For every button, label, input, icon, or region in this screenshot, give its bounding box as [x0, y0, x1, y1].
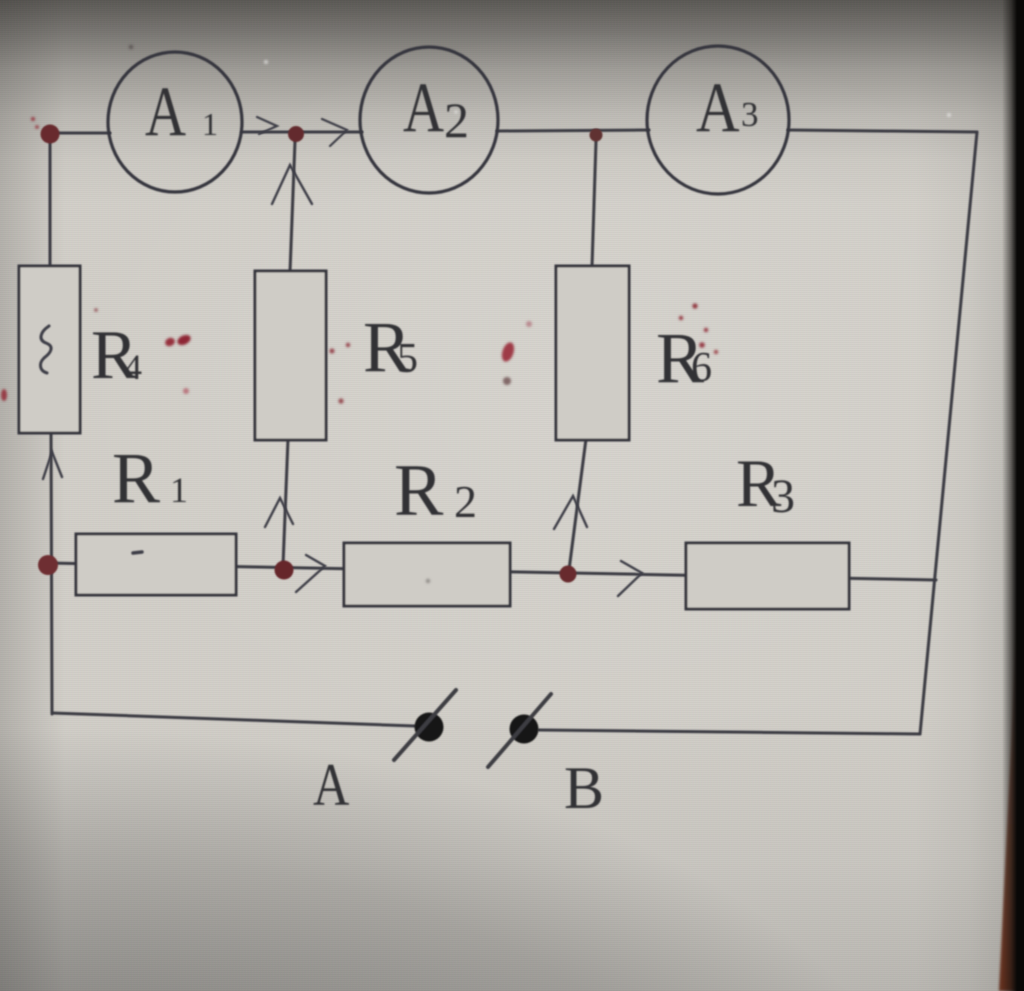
wire left side upper — [49, 140, 52, 267]
resistor R1 — [76, 534, 236, 595]
resistor R5 — [255, 271, 326, 440]
junction node R1-R2 — [275, 561, 294, 580]
red speckle left edge — [1, 389, 7, 401]
junction node left middle — [38, 555, 58, 575]
wire R6 bottom branch — [569, 439, 586, 570]
wire middle row — [48, 563, 936, 580]
resistor R2 — [344, 543, 510, 606]
wire bottom right B to corner — [539, 730, 920, 734]
svg-text:2: 2 — [454, 476, 477, 527]
svg-text:3: 3 — [741, 95, 759, 134]
red speckle cluster above R6 label — [679, 316, 683, 320]
mark inside R1 — [133, 552, 142, 553]
junction node R2-R3 — [560, 566, 577, 583]
svg-text:1: 1 — [202, 106, 218, 142]
wire bottom left corner to A — [52, 713, 415, 726]
svg-text:6: 6 — [691, 345, 712, 391]
terminal B — [510, 715, 539, 744]
red speckle below R4 label — [183, 388, 189, 394]
current arrow on R5 top branch — [272, 165, 312, 204]
wire R5 top branch — [290, 141, 295, 272]
brown wedge bottom-right — [999, 560, 1019, 991]
terminal A — [415, 713, 444, 742]
red speckle blob left of R6 — [500, 341, 517, 363]
svg-text:3: 3 — [771, 470, 795, 523]
current arrow on R6 bottom branch — [554, 496, 587, 529]
wire top-left node to A1 — [50, 132, 110, 135]
wire A2 to A3 — [497, 130, 649, 131]
ammeter A2 — [360, 47, 498, 193]
current arrow after node R1R2 — [296, 555, 325, 592]
wire R6 top branch — [592, 141, 596, 267]
svg-text:1: 1 — [170, 470, 188, 510]
junction node at R5 top branch — [288, 126, 304, 142]
wire R5 bottom branch — [283, 439, 288, 566]
svg-text:5: 5 — [397, 336, 418, 382]
ammeter A3 — [647, 46, 789, 194]
junction node at R6 top branch — [590, 129, 603, 142]
red speckle dash near R4 — [164, 336, 176, 347]
svg-text:R: R — [112, 438, 160, 518]
svg-text:A: A — [403, 68, 444, 146]
red speckle dot above R4 label — [94, 308, 98, 312]
current arrow before A2 — [322, 119, 347, 146]
svg-text:A: A — [145, 72, 186, 150]
resistor R6 — [556, 266, 629, 440]
svg-text:2: 2 — [444, 92, 469, 148]
red speckles near R5 — [330, 349, 335, 354]
dust specks — [264, 60, 268, 64]
current arrow after node R2R3 — [618, 561, 642, 596]
wire left side lower — [51, 432, 52, 714]
svg-text:B: B — [564, 755, 604, 821]
resistor R3 — [686, 543, 849, 609]
resistor R4 — [19, 266, 80, 433]
wire A3 to top-right corner — [788, 130, 977, 132]
squiggle inside R4 — [40, 326, 51, 373]
red speckles near top-left node — [31, 117, 35, 121]
svg-text:4: 4 — [124, 347, 142, 387]
svg-text:A: A — [696, 69, 740, 148]
ammeter A1 — [108, 52, 242, 192]
current arrow on left wire — [43, 452, 62, 479]
current arrow after A1 — [257, 117, 277, 134]
wire right side — [920, 132, 977, 734]
junction node top-left — [41, 125, 60, 144]
wire A1 to A2 — [242, 131, 362, 134]
current arrow on R5 bottom branch — [265, 498, 293, 527]
svg-text:R: R — [394, 450, 444, 532]
svg-text:A: A — [313, 752, 349, 818]
